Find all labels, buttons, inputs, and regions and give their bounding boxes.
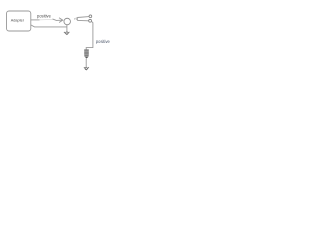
connector J1 top pin circle [89, 15, 92, 18]
terminal A circle [66, 32, 68, 34]
wire negative (bottom output) [31, 25, 67, 27]
wire positive, faint under label [40, 18, 53, 21]
wire positive (top output), left stub [31, 19, 40, 21]
node A (connection circle) [64, 18, 71, 25]
svg-text:positive: positive [37, 13, 52, 18]
terminal A arrow [64, 32, 70, 35]
wire positive, kink segment [53, 19, 63, 21]
terminal B arrow [84, 67, 89, 70]
svg-text:Adapter: Adapter [11, 18, 25, 22]
Adapter block U1 [7, 11, 31, 31]
battery BT1 plates [84, 50, 89, 59]
svg-text:positive: positive [96, 39, 111, 44]
wire below battery [85, 59, 87, 67]
wire down from node A [66, 25, 68, 32]
connector J1 bottom pin circle [89, 19, 92, 22]
connector J1 left cap [76, 18, 78, 21]
wire from J1 down [86, 21, 93, 49]
connector J1 top prong [77, 16, 89, 19]
terminal B circle [85, 67, 87, 69]
connector J1 bottom prong [77, 19, 88, 21]
arrowhead into node [59, 18, 63, 23]
